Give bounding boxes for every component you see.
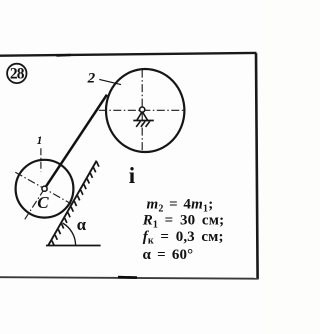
pivot support base line (133, 120, 154, 122)
svg-text:α = 60°: α = 60° (143, 247, 194, 263)
frame right border (256, 53, 258, 279)
pulley 2 circle (106, 69, 184, 152)
svg-text:i: i (129, 163, 136, 188)
frame top border (0, 53, 257, 56)
pulley 2 vertical centerline (141, 70, 143, 152)
svg-text:28: 28 (10, 65, 25, 82)
pivot support hatching (136, 121, 150, 127)
wheel 1 vertical centerline (40, 148, 42, 171)
wheel 1 centerline along incline (25, 189, 45, 220)
frame bottom border tick (118, 276, 137, 279)
label 2 leader line (99, 79, 121, 84)
wheel 1 hub C (42, 186, 47, 191)
incline surface line (48, 161, 97, 246)
problem number badge circle (7, 64, 26, 83)
wheel 1 centerline normal to incline (15, 172, 71, 204)
incline hatching (52, 162, 99, 246)
frame bottom border (0, 277, 259, 279)
pivot support triangle (137, 112, 148, 121)
ground line (46, 245, 101, 247)
pulley 2 horizontal centerline (99, 109, 185, 111)
angle arc (63, 223, 76, 246)
svg-text:C: C (37, 193, 49, 212)
svg-text:fк = 0,3 см;: fк = 0,3 см; (143, 229, 224, 247)
string from wheel 1 axle to pulley 2 (45, 95, 107, 189)
svg-text:1: 1 (37, 135, 43, 147)
wheel 1 circle (16, 160, 74, 218)
svg-text:α: α (77, 215, 87, 234)
pivot pin circle (140, 107, 145, 112)
frame top border blob (57, 54, 72, 57)
svg-text:2: 2 (87, 70, 96, 86)
